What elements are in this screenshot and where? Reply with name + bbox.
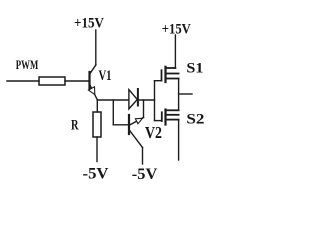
svg-text:S2: S2 — [186, 111, 204, 127]
wire +15V rail to V1 collector — [95, 30, 97, 65]
transistor V2 (PNP) — [129, 100, 144, 164]
diode (speed-up diode on node A wire) — [129, 89, 138, 109]
wire PWM input to resistor — [7, 80, 39, 82]
wire output stub — [179, 93, 192, 95]
transistor V1 (NPN) — [88, 65, 97, 100]
svg-text:R: R — [71, 118, 79, 134]
svg-text:PWM: PWM — [16, 57, 39, 72]
wire +15V rail to S1 drain — [174, 35, 176, 68]
wire node A down to V2 base — [113, 100, 128, 125]
svg-text:V1: V1 — [99, 68, 112, 84]
wire gate bus (driver output to S1/S2 gates) — [154, 81, 156, 121]
wire R to -5V — [96, 137, 98, 162]
svg-text:V2: V2 — [145, 123, 162, 142]
MOSFET S1 — [155, 67, 179, 82]
svg-text:+15V: +15V — [74, 15, 104, 31]
MOSFET S2 — [155, 110, 179, 125]
wire resistor to V1 base — [65, 80, 88, 82]
node A: V1 emitter junction, main horizontal wire — [97, 99, 154, 101]
svg-text:S1: S1 — [186, 60, 203, 76]
svg-text:-5V: -5V — [132, 166, 158, 183]
resistor R — [93, 112, 101, 137]
svg-text:+15V: +15V — [162, 21, 191, 37]
wire node A down to resistor R — [96, 100, 98, 112]
wire S2 source down — [178, 120, 180, 160]
resistor base (series input resistor) — [39, 77, 65, 85]
svg-text:-5V: -5V — [83, 166, 109, 183]
wire S1 source to S2 drain — [178, 79, 180, 111]
